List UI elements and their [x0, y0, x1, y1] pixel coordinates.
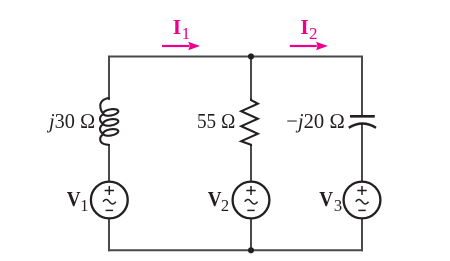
source V3 minus sign [358, 209, 365, 211]
source V2 minus sign [247, 209, 254, 211]
source V3 sine [356, 199, 369, 204]
wire middle branch lower [250, 219, 252, 252]
svg-text:j30 Ω: j30 Ω [46, 109, 95, 133]
svg-text:I: I [173, 15, 181, 39]
svg-text:2: 2 [309, 24, 318, 43]
source V1 minus sign [106, 209, 113, 211]
wire middle branch upper [250, 57, 252, 100]
svg-text:2: 2 [221, 196, 229, 215]
capacitor C curved bottom plate [349, 124, 376, 128]
wire left branch middle [108, 144, 110, 182]
arrow I1 [162, 42, 200, 51]
node top junction [248, 53, 254, 59]
wire middle branch middle [250, 145, 252, 183]
arrow I2 [290, 42, 328, 51]
svg-text:V: V [319, 187, 333, 211]
wire left branch lower [108, 219, 110, 252]
svg-text:V: V [67, 187, 81, 211]
wire left branch upper [108, 56, 110, 101]
source V2 sine [245, 199, 258, 204]
svg-text:I: I [300, 15, 308, 39]
svg-text:3: 3 [334, 196, 342, 215]
svg-text:1: 1 [80, 196, 88, 215]
source V1 plus sign [105, 186, 114, 195]
source V1 circle [91, 182, 128, 219]
node bottom junction [248, 247, 254, 253]
source V3 plus sign [357, 186, 366, 195]
svg-text:−j20 Ω: −j20 Ω [286, 109, 345, 133]
wire right branch middle [361, 125, 363, 183]
svg-text:1: 1 [182, 24, 191, 43]
source V2 plus sign [246, 186, 255, 195]
wire right branch lower [361, 219, 363, 252]
resistor R (55 ohm) [241, 99, 258, 147]
source V3 circle [344, 182, 381, 219]
wire bottom horizontal [108, 249, 363, 251]
wire right branch upper [361, 56, 363, 117]
inductor L (j30 ohm) [100, 98, 119, 145]
wire top horizontal [108, 56, 363, 58]
svg-text:V: V [208, 187, 222, 211]
capacitor C (-j20 ohm) top plate [350, 115, 375, 118]
source V1 sine [103, 199, 116, 204]
source V2 circle [233, 182, 270, 219]
svg-text:55 Ω: 55 Ω [197, 109, 236, 133]
